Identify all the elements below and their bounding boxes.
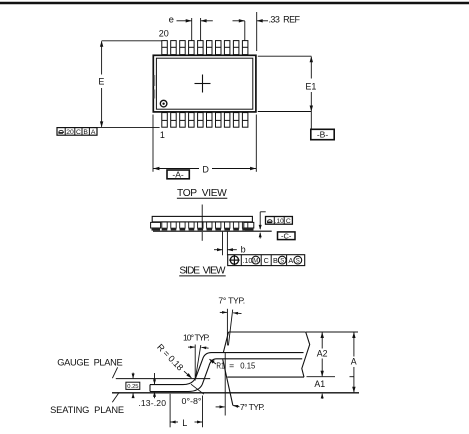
svg-text:e: e xyxy=(169,15,174,26)
svg-text:-A-: -A- xyxy=(172,169,184,179)
svg-text:-C-: -C- xyxy=(281,231,292,240)
svg-text:20: 20 xyxy=(159,29,169,39)
svg-text:L: L xyxy=(182,418,187,428)
svg-text:.13-.20: .13-.20 xyxy=(138,398,166,408)
svg-text:B: B xyxy=(273,256,278,265)
svg-text:E: E xyxy=(98,76,104,86)
svg-text:S: S xyxy=(296,258,300,264)
svg-text:C: C xyxy=(264,256,269,265)
svg-text:A: A xyxy=(91,129,96,136)
svg-text:SIDE VIEW: SIDE VIEW xyxy=(179,266,225,277)
svg-text:R1: R1 xyxy=(216,360,224,370)
svg-text:E1: E1 xyxy=(305,81,316,91)
svg-text:b: b xyxy=(241,245,246,255)
svg-text:20: 20 xyxy=(66,129,74,136)
svg-text:7° TYP.: 7° TYP. xyxy=(240,402,265,412)
svg-text:C: C xyxy=(76,129,81,136)
svg-text:A2: A2 xyxy=(317,349,328,359)
svg-text:A: A xyxy=(351,356,357,366)
svg-text:7° TYP.: 7° TYP. xyxy=(218,296,245,306)
svg-text:M: M xyxy=(253,258,258,264)
svg-text:0°-8°: 0°-8° xyxy=(182,396,202,406)
svg-text:0.25: 0.25 xyxy=(127,384,138,390)
svg-text:B: B xyxy=(83,129,88,136)
svg-text:A: A xyxy=(288,256,293,265)
svg-text:S: S xyxy=(280,258,284,264)
svg-text:A1: A1 xyxy=(314,379,325,389)
svg-text:=: = xyxy=(229,360,234,370)
svg-text:1: 1 xyxy=(160,130,165,140)
svg-text:TOP VIEW: TOP VIEW xyxy=(177,188,227,199)
svg-text:-B-: -B- xyxy=(317,129,329,139)
svg-text:GAUGE PLANE: GAUGE PLANE xyxy=(57,357,123,367)
svg-text:.10: .10 xyxy=(275,218,284,225)
svg-text:10° TYP.: 10° TYP. xyxy=(183,333,210,343)
svg-text:C: C xyxy=(286,218,291,225)
svg-text:.33 REF: .33 REF xyxy=(269,14,301,24)
svg-text:0.15: 0.15 xyxy=(240,360,255,370)
svg-text:D: D xyxy=(202,164,209,174)
svg-text:SEATING PLANE: SEATING PLANE xyxy=(50,405,124,415)
svg-text:.10: .10 xyxy=(243,258,253,265)
